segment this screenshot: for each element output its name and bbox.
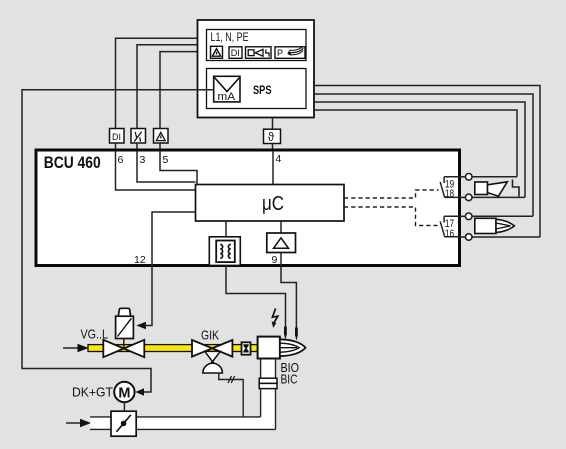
svg-text:6: 6 [118,154,124,166]
arrowhead into motor M [136,388,145,396]
air damper box [111,411,136,436]
wire terminal 18 to right riser [472,196,525,198]
icon warning triangle (mains) [211,46,223,58]
SPS inner box [207,69,307,109]
svg-text:mA: mA [218,91,236,103]
wire terminal 16 stub [460,236,465,238]
svg-text:M: M [118,385,130,401]
svg-text:5: 5 [163,154,169,166]
burner nozzle [280,339,306,356]
ionisation electrode [295,328,298,336]
spark electrode step [513,180,520,197]
svg-text:BIC: BIC [281,371,298,386]
ignition transformer box [209,237,240,266]
svg-text:9: 9 [272,254,278,266]
microcontroller uC box [196,185,345,222]
svg-text:L1, N, PE: L1, N, PE [211,32,249,44]
GIK lower triangle [205,351,221,361]
svg-text:16: 16 [445,228,454,240]
BCU 460 box [36,150,460,266]
wire terminal 16 to right riser [472,236,540,238]
L1,N,PE input box [207,30,307,61]
GIK impulse line [219,373,243,417]
wire thermostat to terminal 4 [272,144,274,152]
gas inlet arrow [63,347,78,349]
relay contact 19/18 [440,177,460,198]
GIK funnel lines [205,362,221,369]
wire terminal 19 to right riser [472,176,517,178]
svg-text:P: P [277,48,283,58]
svg-text:μC: μC [262,193,284,215]
wire uC to flame amplifier [280,221,282,233]
wire riser 17 to SPS [314,94,533,216]
motor M circle [114,382,134,402]
pilot burner icon [475,218,515,233]
restrictor orifice [242,342,251,354]
valve VG..L actuator [116,308,134,338]
wire terminal 12 to valve actuator [146,265,152,326]
wire terminal 19 stub [460,176,465,178]
wire from mA output to motor M (long left loop) [22,90,214,392]
wire terminal 5 to uC [160,151,197,185]
wire terminal 18 stub [460,196,465,198]
wire flame amplifier to terminal 9 [280,253,282,267]
dashed link uC to valve relay 19/18 [344,190,439,198]
air inlet arrow [66,422,80,424]
wire riser 19 to SPS [314,110,517,177]
svg-text:DI: DI [231,48,240,58]
terminal circle 16 [465,234,472,241]
icon warning triangle input [154,129,169,144]
terminal circle 17 [465,213,472,220]
wire terminal 17 stub [460,215,465,217]
terminal circle 19 [465,174,472,181]
impulse line slashes [228,376,235,383]
ignition unit icon [475,182,508,196]
relay contact 17/16 [440,216,460,237]
valve VG..L stem [123,339,125,349]
terminal circle 18 [465,194,472,201]
wire terminal 9 to ionisation electrode [281,266,296,328]
burner body [258,337,280,359]
burner flame inner [280,343,299,352]
valve GIK body [192,340,232,357]
stubs icons to BCU [116,143,161,150]
icon reset input [131,129,146,144]
GIK diaphragm dome [203,363,223,373]
wire terminal 6 to uC [116,151,196,190]
pilot burner flame lines [496,223,511,229]
svg-text:DK+GT: DK+GT [72,385,113,400]
wire terminal 17 to right riser [472,215,533,217]
motor stem to damper [123,402,125,411]
wire terminal 4 to uC [272,151,274,185]
svg-text:3: 3 [140,154,146,166]
mA envelope symbol [214,76,240,102]
icon valve output [246,47,272,59]
svg-text:GIK: GIK [201,328,219,343]
wire terminal 12 from uC [152,212,196,266]
dashed link uC to valve relay 17/16 [344,207,438,226]
valve actuator diagonal [118,318,132,336]
wire SPS box to fault input (terminal 5) [160,52,198,129]
lightning spark symbol [272,308,277,322]
arrowhead into valve actuator [136,322,146,330]
wire terminal 3 to uC [137,151,196,182]
SPS unit outer box [198,20,315,118]
wire ignition transformer to ignition electrode [226,266,286,328]
wire mA envelope to box edge [198,89,214,91]
svg-text:SPS: SPS [253,85,272,97]
gas pipe (yellow) [88,345,258,352]
air duct white interior [90,358,276,430]
burner flange [259,378,277,388]
svg-text:BCU 460: BCU 460 [44,154,101,172]
valve VG..L body [103,340,144,357]
svg-text:DI: DI [112,132,121,142]
flame amplifier box (triangle) [267,233,296,253]
svg-text:ϑ: ϑ [268,132,275,144]
svg-text:VG..L: VG..L [81,327,109,342]
ignition electrode [284,327,287,335]
wire uC to ignition transformer [225,221,227,236]
thermostat icon (theta) [264,129,281,144]
wire SPS to thermostat icon [272,118,274,130]
svg-text:12: 12 [134,254,146,266]
wire SPS box to reset input (terminal 3) [137,45,198,129]
svg-text:18: 18 [445,188,454,200]
icon DI [229,47,242,59]
wire SPS box to input DI (terminal 6) [116,38,198,129]
wire riser 16 to SPS [314,86,540,238]
svg-text:4: 4 [276,153,282,165]
icon P air/fan [275,47,305,59]
wire riser 18 to SPS [314,102,525,197]
burner down pipe lines [90,358,276,429]
icon DI input [110,129,125,144]
